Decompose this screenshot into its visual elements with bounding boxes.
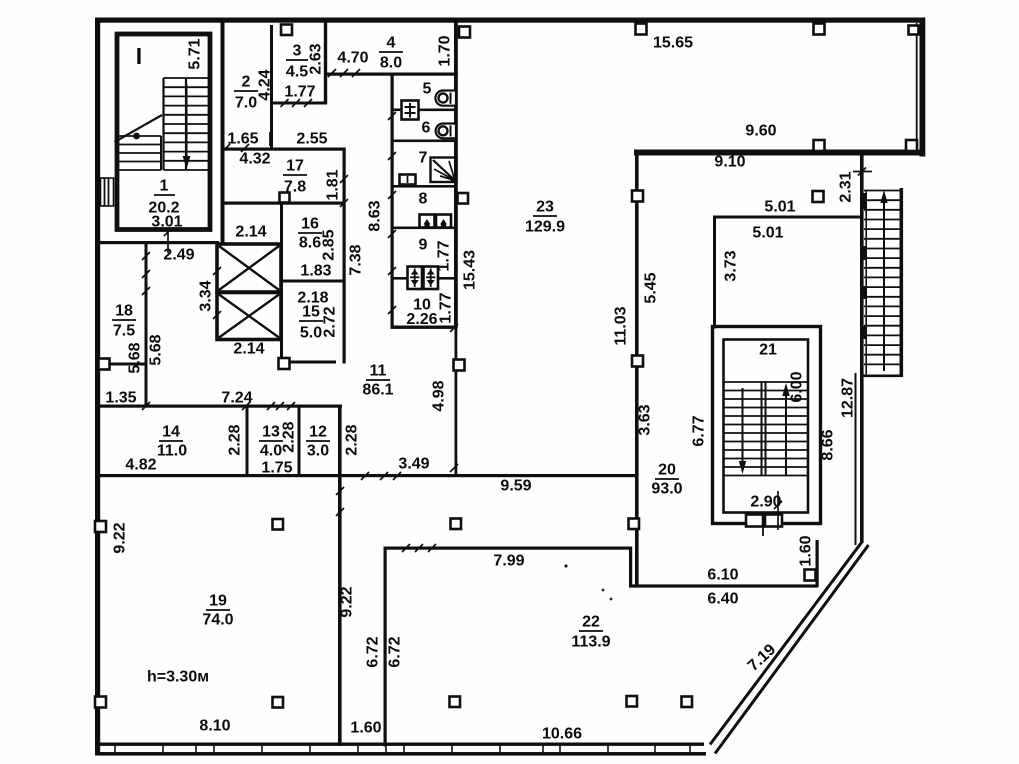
- svg-text:8.10: 8.10: [199, 718, 230, 735]
- svg-text:1.77: 1.77: [284, 84, 315, 101]
- svg-text:4.0: 4.0: [260, 443, 282, 460]
- svg-text:6.00: 6.00: [789, 371, 806, 402]
- svg-text:2.85: 2.85: [321, 229, 338, 260]
- svg-text:1.35: 1.35: [105, 390, 136, 407]
- svg-text:4.82: 4.82: [125, 457, 156, 474]
- svg-text:22: 22: [582, 614, 600, 631]
- svg-text:11.03: 11.03: [613, 306, 630, 345]
- svg-text:7: 7: [419, 150, 428, 167]
- svg-text:6: 6: [422, 120, 431, 137]
- svg-text:15.65: 15.65: [653, 35, 693, 52]
- svg-text:2.28: 2.28: [227, 424, 244, 455]
- svg-text:6.72: 6.72: [387, 636, 404, 667]
- svg-text:16: 16: [301, 216, 319, 233]
- svg-text:9: 9: [419, 237, 428, 254]
- svg-text:8.66: 8.66: [820, 429, 837, 460]
- svg-text:1.60: 1.60: [350, 720, 381, 737]
- svg-text:10.66: 10.66: [542, 726, 582, 743]
- svg-text:3: 3: [293, 43, 302, 60]
- svg-text:15.43: 15.43: [462, 250, 479, 290]
- svg-text:7.99: 7.99: [493, 553, 524, 570]
- svg-text:3.49: 3.49: [398, 456, 429, 473]
- svg-text:8.63: 8.63: [367, 200, 384, 231]
- svg-text:9.60: 9.60: [745, 123, 776, 140]
- svg-text:5.0: 5.0: [300, 325, 322, 342]
- svg-text:129.9: 129.9: [525, 219, 565, 236]
- svg-text:7.19: 7.19: [745, 641, 779, 675]
- svg-text:3.73: 3.73: [723, 250, 740, 281]
- svg-text:1.75: 1.75: [261, 460, 292, 477]
- svg-text:h=3.30м: h=3.30м: [147, 669, 209, 686]
- svg-text:12.87: 12.87: [840, 378, 857, 418]
- svg-text:1.83: 1.83: [300, 263, 331, 280]
- svg-text:74.0: 74.0: [202, 612, 233, 629]
- svg-text:2.14: 2.14: [233, 341, 264, 358]
- svg-text:2.55: 2.55: [296, 131, 327, 148]
- svg-text:5.01: 5.01: [752, 225, 783, 242]
- svg-text:6.77: 6.77: [691, 415, 708, 446]
- svg-text:4.5: 4.5: [286, 64, 308, 81]
- svg-text:5: 5: [423, 81, 432, 98]
- svg-text:23: 23: [536, 199, 554, 216]
- svg-text:1.77: 1.77: [436, 240, 453, 271]
- svg-text:2.31: 2.31: [838, 171, 855, 202]
- svg-text:2.72: 2.72: [322, 306, 339, 337]
- svg-text:19: 19: [209, 593, 227, 610]
- svg-text:2.28: 2.28: [281, 421, 298, 452]
- svg-text:5.71: 5.71: [187, 38, 204, 69]
- svg-text:3.0: 3.0: [307, 443, 329, 460]
- svg-text:11: 11: [370, 363, 387, 380]
- svg-text:13: 13: [262, 424, 280, 441]
- svg-text:1.65: 1.65: [227, 131, 258, 148]
- svg-text:113.9: 113.9: [571, 634, 610, 651]
- svg-text:21: 21: [759, 342, 777, 359]
- svg-text:9.22: 9.22: [339, 586, 356, 617]
- svg-text:7.24: 7.24: [221, 390, 252, 407]
- svg-text:1.70: 1.70: [437, 35, 454, 66]
- svg-text:2.90: 2.90: [750, 494, 781, 511]
- svg-text:8.0: 8.0: [380, 55, 402, 72]
- svg-text:2.26: 2.26: [406, 311, 437, 328]
- svg-text:2: 2: [242, 74, 251, 91]
- svg-text:2.63: 2.63: [308, 43, 325, 74]
- svg-text:2.14: 2.14: [235, 224, 266, 241]
- svg-text:5.68: 5.68: [148, 334, 165, 365]
- svg-text:4.98: 4.98: [431, 380, 448, 411]
- svg-text:5.01: 5.01: [764, 199, 795, 216]
- svg-text:9.10: 9.10: [714, 154, 745, 171]
- svg-text:7.0: 7.0: [235, 95, 257, 112]
- svg-text:11.0: 11.0: [157, 443, 187, 460]
- svg-text:3.63: 3.63: [637, 404, 654, 435]
- svg-text:17: 17: [286, 158, 304, 175]
- svg-text:3.01: 3.01: [151, 214, 182, 231]
- svg-text:4: 4: [387, 35, 396, 52]
- svg-text:1.81: 1.81: [325, 169, 342, 200]
- svg-text:7.8: 7.8: [284, 179, 306, 196]
- svg-text:20: 20: [658, 462, 676, 479]
- svg-text:6.10: 6.10: [707, 567, 738, 584]
- svg-text:5.68: 5.68: [127, 342, 144, 373]
- svg-text:3.34: 3.34: [198, 280, 215, 311]
- svg-text:1.77: 1.77: [438, 292, 455, 323]
- svg-text:7.38: 7.38: [348, 244, 365, 275]
- svg-text:7.5: 7.5: [113, 323, 135, 340]
- svg-text:1: 1: [160, 178, 169, 195]
- svg-text:2.28: 2.28: [344, 424, 361, 455]
- svg-text:8.6: 8.6: [299, 235, 321, 252]
- svg-text:14: 14: [162, 424, 180, 441]
- svg-text:1.60: 1.60: [798, 535, 815, 566]
- svg-text:5.45: 5.45: [643, 272, 660, 303]
- svg-text:93.0: 93.0: [651, 481, 682, 498]
- svg-text:6.72: 6.72: [365, 636, 382, 667]
- svg-text:4.70: 4.70: [337, 50, 368, 67]
- svg-text:2.18: 2.18: [297, 290, 328, 307]
- svg-text:4.32: 4.32: [239, 151, 270, 168]
- svg-text:2.49: 2.49: [163, 247, 194, 264]
- svg-text:9.59: 9.59: [500, 478, 531, 495]
- svg-text:4.24: 4.24: [257, 69, 274, 100]
- svg-text:6.40: 6.40: [707, 591, 738, 608]
- svg-text:9.22: 9.22: [112, 522, 129, 553]
- svg-text:18: 18: [115, 303, 133, 320]
- svg-text:86.1: 86.1: [362, 382, 393, 399]
- svg-text:I: I: [136, 43, 142, 69]
- svg-text:12: 12: [309, 424, 327, 441]
- svg-text:8: 8: [419, 191, 428, 208]
